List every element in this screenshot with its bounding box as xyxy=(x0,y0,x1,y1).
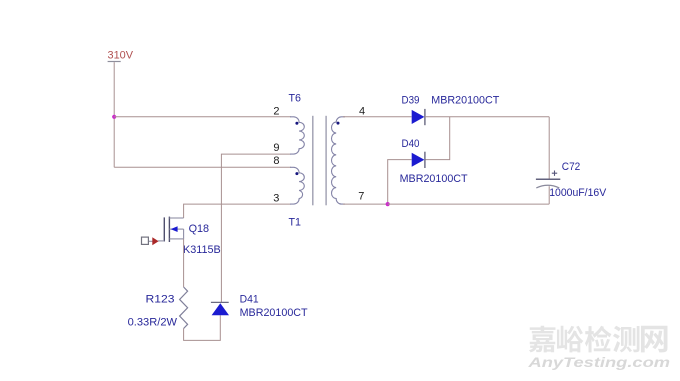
svg-text:9: 9 xyxy=(273,142,279,154)
svg-text:AnyTesting.com: AnyTesting.com xyxy=(527,355,670,370)
svg-text:8: 8 xyxy=(273,155,279,167)
wire right rail bottom xyxy=(548,186,550,204)
power symbol 310V xyxy=(108,50,134,62)
wire to pin 2 xyxy=(114,116,291,118)
svg-text:2: 2 xyxy=(273,106,279,118)
svg-text:MBR20100CT: MBR20100CT xyxy=(431,94,499,106)
svg-text:D41: D41 xyxy=(240,293,259,305)
svg-text:Q18: Q18 xyxy=(189,223,210,235)
transformer primary winding top (pins 2-9) xyxy=(290,117,304,154)
svg-text:D40: D40 xyxy=(402,138,420,150)
svg-text:MBR20100CT: MBR20100CT xyxy=(240,307,308,319)
svg-text:MBR20100CT: MBR20100CT xyxy=(400,173,468,185)
node output junction xyxy=(386,202,390,206)
wire D40 anode xyxy=(388,160,412,205)
svg-text:D39: D39 xyxy=(402,94,420,106)
diode D40 xyxy=(412,152,425,168)
wire R123 bottom xyxy=(184,315,221,340)
node 310V junction xyxy=(112,115,116,119)
svg-text:R123: R123 xyxy=(146,293,175,305)
svg-text:C72: C72 xyxy=(562,161,581,173)
wire Q18 source xyxy=(183,239,185,287)
wire bottom rail to C72 xyxy=(388,203,550,205)
transformer primary winding bottom (pins 8-3) xyxy=(290,167,304,204)
phase dot pin8 xyxy=(295,172,298,175)
svg-text:K3115B: K3115B xyxy=(183,244,221,256)
phase dot pin2 xyxy=(295,122,298,125)
svg-text:T6: T6 xyxy=(289,92,302,104)
wire pin7 xyxy=(343,203,388,205)
wire pin 3 to Q18 drain xyxy=(184,204,291,218)
svg-text:4: 4 xyxy=(359,106,365,118)
diode D39 xyxy=(412,109,425,125)
transformer secondary winding (pins 4-7) xyxy=(332,117,346,204)
resistor R123 xyxy=(180,287,188,328)
wire right rail top xyxy=(548,117,550,180)
svg-text:7: 7 xyxy=(358,191,364,203)
wire pin 9 to D41 branch xyxy=(221,154,291,302)
transformer core xyxy=(312,116,314,206)
wire to pin 8 xyxy=(114,166,291,168)
gate port arrow xyxy=(152,237,158,245)
svg-text:1000uF/16V: 1000uF/16V xyxy=(549,187,607,199)
wire branch down to D40 cathode xyxy=(425,117,450,160)
wire pin4 to D39 xyxy=(343,116,412,118)
phase dot pin4 xyxy=(337,122,340,125)
wire D39 cathode to right rail xyxy=(425,116,549,118)
gate port square xyxy=(142,237,149,244)
svg-text:310V: 310V xyxy=(108,50,134,62)
diode D41 xyxy=(211,302,229,315)
capacitor C72 xyxy=(536,171,560,188)
transistor Q18 xyxy=(149,217,184,242)
svg-text:0.33R/2W: 0.33R/2W xyxy=(128,316,178,328)
watermark chinese xyxy=(529,326,667,353)
svg-text:3: 3 xyxy=(273,193,279,205)
wire 310V vertical xyxy=(113,62,115,167)
svg-text:T1: T1 xyxy=(289,217,302,229)
